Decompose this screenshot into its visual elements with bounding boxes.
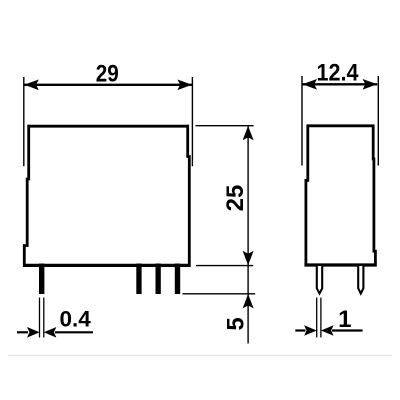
svg-text:5: 5	[223, 317, 250, 330]
svg-text:1: 1	[338, 306, 351, 333]
svg-text:29: 29	[96, 60, 119, 87]
svg-text:0.4: 0.4	[60, 306, 92, 331]
svg-text:12.4: 12.4	[317, 59, 360, 86]
svg-text:25: 25	[222, 185, 249, 212]
